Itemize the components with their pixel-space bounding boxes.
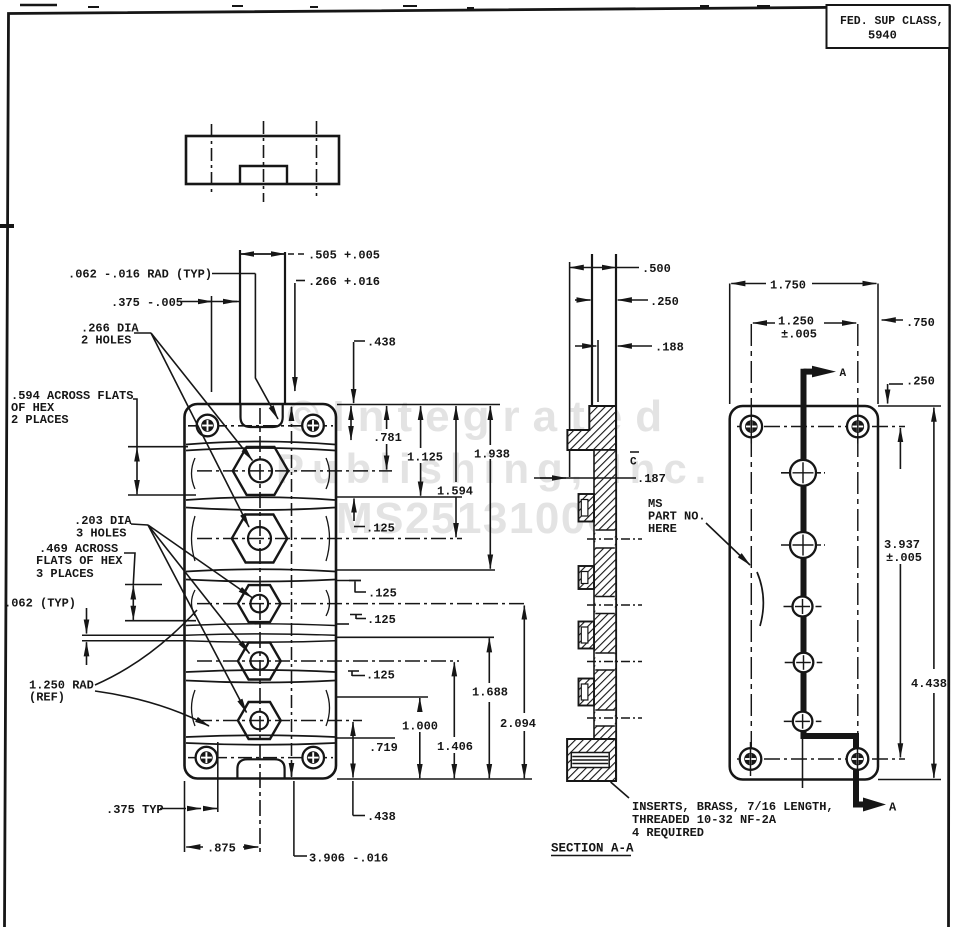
svg-text:.438: .438 — [367, 810, 396, 824]
svg-text:1.688: 1.688 — [472, 686, 508, 700]
svg-text:1.250: 1.250 — [778, 315, 814, 329]
svg-text:1.406: 1.406 — [437, 740, 473, 754]
svg-text:2 PLACES: 2 PLACES — [11, 413, 69, 427]
svg-text:.062 (TYP): .062 (TYP) — [4, 597, 76, 611]
svg-text:C: C — [630, 457, 637, 469]
svg-text:.125: .125 — [367, 613, 396, 627]
svg-text:.500: .500 — [642, 262, 671, 276]
svg-text:.250: .250 — [650, 295, 679, 309]
svg-text:FLATS OF HEX: FLATS OF HEX — [36, 554, 123, 568]
svg-text:1.594: 1.594 — [437, 485, 473, 499]
svg-text:(REF): (REF) — [29, 691, 65, 705]
svg-text:THREADED 10-32 NF-2A: THREADED 10-32 NF-2A — [632, 813, 777, 827]
svg-text:A: A — [840, 368, 847, 380]
svg-text:±.005: ±.005 — [886, 551, 922, 565]
svg-text:1.750: 1.750 — [770, 279, 806, 293]
svg-text:HERE: HERE — [648, 522, 677, 536]
svg-text:3 HOLES: 3 HOLES — [76, 527, 126, 541]
svg-text:3 PLACES: 3 PLACES — [36, 567, 94, 581]
svg-text:.719: .719 — [369, 741, 398, 755]
svg-text:2 HOLES: 2 HOLES — [81, 334, 131, 348]
svg-text:1.125: 1.125 — [407, 451, 443, 465]
svg-text:.750: .750 — [906, 316, 935, 330]
svg-text:5940: 5940 — [868, 29, 897, 43]
svg-text:.250: .250 — [906, 375, 935, 389]
svg-text:.125: .125 — [368, 587, 397, 601]
svg-text:2.094: 2.094 — [500, 717, 536, 731]
svg-text:.188: .188 — [655, 341, 684, 355]
svg-text:INSERTS, BRASS, 7/16 LENGTH,: INSERTS, BRASS, 7/16 LENGTH, — [632, 800, 834, 814]
svg-text:4 REQUIRED: 4 REQUIRED — [632, 826, 704, 840]
svg-text:.187: .187 — [637, 472, 666, 486]
svg-text:.062 -.016 RAD (TYP): .062 -.016 RAD (TYP) — [68, 268, 212, 282]
svg-text:SECTION A-A: SECTION A-A — [551, 842, 634, 856]
svg-text:3.906 -.016: 3.906 -.016 — [309, 852, 388, 866]
svg-text:MS25131000: MS25131000 — [336, 494, 613, 543]
svg-text:A: A — [889, 801, 897, 815]
svg-text:.505 +.005: .505 +.005 — [308, 249, 380, 263]
svg-text:FED. SUP CLASS,: FED. SUP CLASS, — [840, 15, 944, 28]
svg-text:.375 -.005: .375 -.005 — [111, 296, 183, 310]
svg-text:3.937: 3.937 — [884, 538, 920, 552]
svg-text:.781: .781 — [373, 431, 402, 445]
svg-text:.125: .125 — [366, 522, 395, 536]
svg-text:±.005: ±.005 — [781, 328, 817, 342]
svg-text:1.938: 1.938 — [474, 448, 510, 462]
svg-text:4.438: 4.438 — [911, 677, 947, 691]
svg-text:.438: .438 — [367, 336, 396, 350]
svg-text:.125: .125 — [366, 669, 395, 683]
svg-text:.266 +.016: .266 +.016 — [308, 275, 380, 289]
svg-text:1.000: 1.000 — [402, 720, 438, 734]
svg-text:.375 TYP: .375 TYP — [106, 803, 164, 817]
svg-text:.875: .875 — [207, 842, 236, 856]
